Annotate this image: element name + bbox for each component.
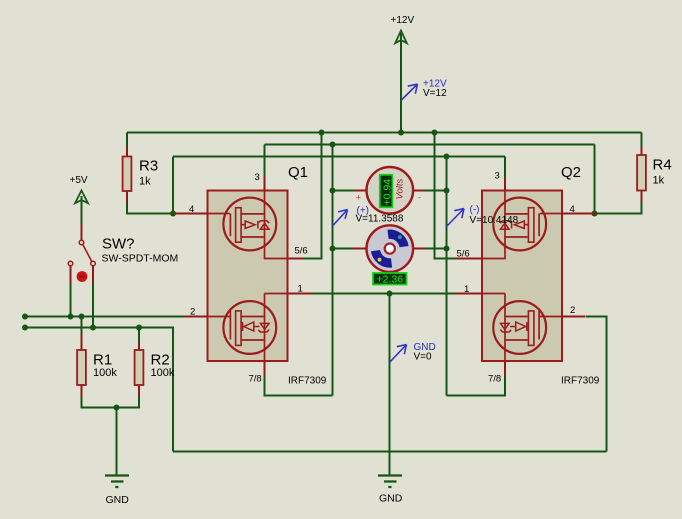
svg-text:5/6: 5/6 (457, 249, 470, 260)
Q1 pin 4 lead (173, 213, 208, 215)
wire R1 R2 bottom join (82, 397, 140, 408)
wire +12V drop (400, 33, 402, 133)
voltmeter U-meter (355, 167, 425, 214)
svg-text:R1: R1 (93, 352, 112, 369)
svg-text:1: 1 (464, 284, 469, 295)
wire Q2 pin3 from line3 (504, 157, 506, 179)
svg-text:+0.94: +0.94 (382, 179, 394, 206)
node wire B left end (22, 325, 28, 331)
wire Q2 5/6 up to +12V rail (435, 133, 457, 259)
wire R4 node up to line2 (594, 145, 596, 214)
wire B gate-right (switch to bottom route) (25, 328, 173, 452)
resistor R3 (123, 147, 159, 203)
svg-text:V=11.3588: V=11.3588 (356, 214, 404, 225)
node wire A left end (22, 314, 28, 320)
svg-text:R3: R3 (139, 158, 158, 175)
node wire B / switch right throw (90, 325, 96, 331)
wire cross-couple rail line3 (R3 node to Q2 pin3) (173, 156, 505, 158)
node R1 R2 / GND (114, 405, 120, 411)
node motor left (330, 246, 336, 252)
Q2 pin 3 lead (504, 178, 506, 191)
svg-text:+: + (356, 193, 361, 203)
wire +5V to switch (81, 196, 83, 224)
probe (-) (447, 205, 519, 227)
svg-text:100k: 100k (93, 367, 117, 379)
node pin1 rail / GND drop (387, 291, 393, 297)
wire voltmeter left (333, 190, 355, 192)
svg-text:IRF7309: IRF7309 (561, 376, 600, 387)
svg-text:GND: GND (379, 493, 403, 505)
svg-text:7/8: 7/8 (249, 374, 262, 385)
wire cross-couple rail line2 (Q1 pin3 to Q2 pin4) (265, 144, 595, 146)
svg-text:2: 2 (570, 305, 575, 316)
transistor pair Q2 IRF7309 (mirrored) (456, 164, 600, 387)
wire R4 top (641, 133, 643, 147)
wire Q2 7/8 run (447, 375, 506, 396)
svg-text:1k: 1k (139, 176, 151, 188)
svg-text:IRF7309: IRF7309 (288, 376, 327, 387)
svg-text:Q1: Q1 (288, 164, 308, 181)
node R4 / Q2 pin4 (592, 211, 598, 217)
transistor pair Q1 IRF7309 (173, 164, 327, 387)
svg-text:4: 4 (570, 204, 575, 215)
node line3 / right output (444, 154, 450, 160)
svg-text:SW-SPDT-MOM: SW-SPDT-MOM (102, 253, 179, 265)
wire R3 node up to line3 (172, 157, 174, 214)
resistor R4 (637, 147, 672, 203)
power +5V symbol (70, 175, 89, 203)
resistor R1 (77, 335, 117, 397)
node wire A / R1 (79, 314, 85, 320)
resistor R2 (135, 343, 175, 397)
wire right output column (voltmeter/motor right, down to Q2 7/8) (446, 157, 448, 396)
node +12V rail / Q1 5-6 (319, 130, 325, 136)
wire voltmeter right (425, 190, 447, 192)
Q2 lower N-MOSFET (482, 294, 562, 376)
node wire A / switch left throw (68, 314, 74, 320)
Q2 pin 5/6 lead (456, 258, 482, 260)
svg-text:2: 2 (190, 307, 195, 318)
wire Q1 5/6 up to +12V rail (303, 133, 322, 259)
wire Q1 7/8 run (265, 375, 333, 396)
node voltmeter right (444, 188, 450, 194)
probe GND (390, 342, 436, 363)
svg-text:+2.36: +2.36 (377, 274, 404, 286)
wire Q2 pin2 down (586, 317, 607, 452)
switch SW? SPDT (68, 224, 178, 284)
wire R2 top (138, 328, 140, 343)
wire R4 bottom to node (595, 202, 642, 214)
power +12V symbol (391, 15, 415, 43)
Q1 pin 1 lead (288, 293, 312, 295)
wire switch right throw down (92, 283, 94, 328)
Q1 pin 2 lead (184, 316, 208, 318)
wire left GND drop (116, 408, 118, 476)
node R3 / Q1 pin4 (170, 211, 176, 217)
svg-text:7/8: 7/8 (488, 374, 501, 385)
svg-text:R4: R4 (653, 157, 672, 174)
ground symbol center (378, 476, 403, 505)
Q2 pin 1 lead (456, 293, 482, 295)
svg-text:(-): (-) (470, 205, 480, 216)
Q1 pin 5/6 lead (288, 258, 304, 260)
Q1 upper P-MOSFET (208, 191, 288, 259)
Q2 pin 4 lead (562, 213, 597, 215)
motor (353, 225, 427, 285)
svg-text:GND: GND (106, 494, 130, 506)
node line2 / left output (330, 142, 336, 148)
probe (+) (333, 206, 404, 227)
Q1 pin 7/8 lead (264, 361, 266, 375)
wire bottom route rail (173, 451, 607, 453)
node motor right (444, 246, 450, 252)
wire R3 bottom to node (127, 202, 173, 214)
svg-text:5/6: 5/6 (295, 246, 308, 257)
Q2 pin 7/8 lead (504, 361, 506, 375)
svg-text:V=0: V=0 (414, 352, 433, 363)
wire GND drop center (389, 294, 391, 476)
node +12V rail / Q2 5-6 (432, 130, 438, 136)
svg-text:V=12: V=12 (423, 88, 447, 99)
svg-text:3: 3 (255, 172, 260, 183)
wire left output column (voltmeter/motor left, down to Q1 7/8) (332, 145, 334, 396)
Q1 lower N-MOSFET (208, 294, 288, 376)
svg-text:Volts: Volts (395, 178, 406, 199)
wire pin1 ground rail (312, 293, 457, 295)
svg-text:4: 4 (189, 204, 194, 215)
node wire B / R2 (136, 325, 142, 331)
node +12V rail / supply (398, 130, 404, 136)
probe +12V (401, 79, 447, 101)
wire switch left throw down (70, 283, 72, 317)
svg-text:Q2: Q2 (561, 164, 581, 181)
wire motor right (426, 248, 447, 250)
svg-text:SW?: SW? (102, 236, 135, 253)
svg-text:1k: 1k (653, 175, 665, 187)
wire R3 top (126, 133, 128, 147)
svg-text:+12V: +12V (391, 15, 415, 26)
svg-text:1: 1 (298, 284, 303, 295)
svg-text:3: 3 (495, 171, 500, 182)
wire +12V top rail (127, 132, 642, 134)
svg-text:V=10.4148: V=10.4148 (470, 215, 519, 226)
wire motor left (333, 248, 353, 250)
svg-text:+5V: +5V (70, 175, 88, 186)
Q2 upper P-MOSFET (482, 191, 562, 259)
ground symbol left (105, 476, 129, 507)
Q1 pin 3 lead (264, 176, 266, 191)
wire R1 top (81, 317, 83, 335)
wire Q1 pin3 from line2 (264, 145, 266, 177)
svg-text:100k: 100k (151, 367, 175, 379)
wire A gate-left (switch to Q1 pin2) (25, 316, 184, 318)
svg-text:-: - (418, 193, 421, 203)
node voltmeter left (330, 188, 336, 194)
svg-text:R2: R2 (151, 352, 170, 369)
Q2 pin 2 lead (562, 316, 585, 318)
